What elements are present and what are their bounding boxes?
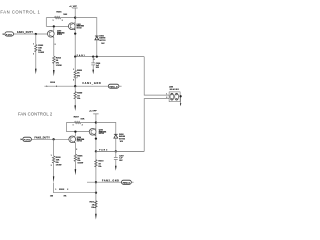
- header J200 body: [169, 92, 180, 102]
- capacitor C206: [91, 57, 95, 70]
- svg-text:2: 2: [62, 20, 63, 22]
- svg-text:R201: R201: [56, 11, 62, 13]
- svg-text:MMBT3906: MMBT3906: [99, 131, 107, 133]
- svg-text:5%: 5%: [64, 195, 67, 197]
- svg-text:SOT23: SOT23: [77, 27, 82, 29]
- wire FAN2_GND: [87, 181, 122, 183]
- wire power to diode D201: [75, 18, 97, 36]
- resistor R210 on rail 2: [95, 160, 97, 167]
- svg-text:R209: R209: [77, 93, 83, 95]
- svg-text:Q203: Q203: [99, 130, 103, 132]
- svg-text:1: 1: [55, 189, 56, 191]
- svg-text:R207: R207: [74, 116, 80, 118]
- svg-text:Q201: Q201: [77, 24, 81, 26]
- off-page connector FAN2_GND output: [122, 180, 132, 184]
- svg-text:2: 2: [82, 125, 83, 127]
- transistor Q202: [47, 30, 54, 37]
- svg-text:10K: 10K: [80, 119, 84, 121]
- resistor R209 lower rail: [74, 86, 76, 91]
- svg-text:1/10W: 1/10W: [56, 164, 62, 166]
- svg-text:FAN2_DUTY: FAN2_DUTY: [34, 137, 50, 140]
- svg-text:FAN1_G: FAN1_G: [110, 85, 118, 88]
- resistor R206 emitter 2: [74, 154, 76, 161]
- base node wire to Q203: [66, 123, 89, 132]
- svg-text:J200: J200: [169, 86, 173, 88]
- svg-text:+5_VPP: +5_VPP: [89, 111, 97, 113]
- header J200 pins: [167, 95, 169, 99]
- resistor R201 feedback: [46, 17, 75, 19]
- power rail section 1: [74, 18, 76, 57]
- resistor R202 pull-down: [35, 34, 37, 69]
- svg-text:HEADER: HEADER: [170, 88, 180, 91]
- svg-text:Q202: Q202: [57, 31, 61, 33]
- node junction on input wire 2: [52, 138, 54, 140]
- svg-text:1/10W: 1/10W: [38, 52, 44, 54]
- svg-text:SOT23: SOT23: [77, 141, 82, 143]
- svg-text:SOT23: SOT23: [99, 40, 105, 42]
- output wire section2 to header: [96, 99, 167, 152]
- svg-text:5%: 5%: [77, 75, 80, 77]
- svg-text:MMBT3906: MMBT3906: [77, 26, 85, 28]
- svg-text:100: 100: [50, 195, 53, 197]
- ground arrow for C207: [115, 166, 117, 171]
- svg-text:1/10W: 1/10W: [56, 65, 62, 67]
- output wire section1 to header: [144, 57, 167, 96]
- svg-text:2: 2: [94, 59, 95, 61]
- output node and arrow: [179, 96, 181, 103]
- off-page connector FAN1_GND output: [108, 84, 119, 88]
- svg-text:FAN2: FAN2: [24, 139, 31, 142]
- ground arrow for C206: [92, 70, 94, 75]
- svg-text:1/10W: 1/10W: [77, 163, 83, 165]
- ground arrow for R202: [35, 69, 37, 75]
- resistor R207 feedback 2: [66, 122, 96, 124]
- ground arrow rail 2: [95, 214, 97, 220]
- svg-text:R212: R212: [59, 189, 65, 191]
- svg-text:FAN2_GND: FAN2_GND: [102, 179, 119, 182]
- svg-text:R210: R210: [98, 161, 104, 163]
- svg-text:SOT23: SOT23: [99, 133, 104, 135]
- svg-text:FAN1_GND: FAN1_GND: [83, 82, 101, 85]
- svg-text:2: 2: [55, 44, 56, 46]
- off-page connector FAN1_DUTY input: [3, 33, 5, 35]
- rail 2 continuation: [95, 151, 97, 214]
- power rail section 2: [95, 123, 97, 152]
- wire FAN1_GND: [44, 85, 108, 87]
- svg-text:R211: R211: [90, 202, 96, 204]
- node wire FAN2 horizontal: [96, 150, 144, 152]
- resistor R205 on rail: [75, 57, 78, 78]
- svg-text:2: 2: [51, 165, 52, 167]
- ground arrow for R206: [75, 169, 77, 175]
- svg-text:5%: 5%: [98, 166, 101, 168]
- svg-text:10K: 10K: [63, 14, 67, 16]
- diode D202: [114, 133, 118, 135]
- svg-text:5%: 5%: [91, 207, 94, 209]
- svg-text:FAN1: FAN1: [6, 33, 13, 36]
- svg-text:FAN1: FAN1: [77, 54, 86, 57]
- svg-text:FAN2_G: FAN2_G: [123, 182, 131, 185]
- svg-text:FAN CONTROL 1: FAN CONTROL 1: [0, 10, 40, 15]
- ground arrow for R204: [53, 70, 55, 76]
- svg-text:5%: 5%: [77, 98, 80, 100]
- capacitor C207: [114, 151, 118, 166]
- svg-text:1: 1: [53, 20, 54, 22]
- transistor Q203: [89, 128, 96, 135]
- node wire FAN1 horizontal: [75, 56, 144, 58]
- svg-text:FAN1_DUTY: FAN1_DUTY: [17, 31, 33, 34]
- transistor Q201: [68, 23, 75, 30]
- resistor R211 bottom rail: [95, 201, 97, 208]
- resistor R204 emitter: [53, 56, 55, 63]
- svg-text:1: 1: [51, 155, 52, 157]
- transistor Q204: [69, 136, 76, 143]
- svg-text:Q204: Q204: [77, 136, 81, 139]
- resistor R203 pull-down: [53, 139, 55, 156]
- base node wire to Q201: [46, 18, 68, 27]
- svg-text:2: 2: [67, 189, 68, 191]
- svg-text:R205: R205: [77, 70, 83, 72]
- diode D201: [95, 35, 99, 37]
- arrow on branch wire: [53, 176, 54, 183]
- svg-text:2: 2: [76, 149, 77, 151]
- ground arrow rail 1: [74, 105, 76, 111]
- off-page connector FAN2_DUTY input: [21, 138, 23, 140]
- wire power to diode D202: [96, 123, 116, 135]
- svg-text:SOT23: SOT23: [57, 34, 62, 36]
- svg-text:1: 1: [73, 125, 74, 127]
- node junction on input wire: [35, 33, 37, 35]
- svg-text:FAN CONTROL 2: FAN CONTROL 2: [18, 111, 53, 116]
